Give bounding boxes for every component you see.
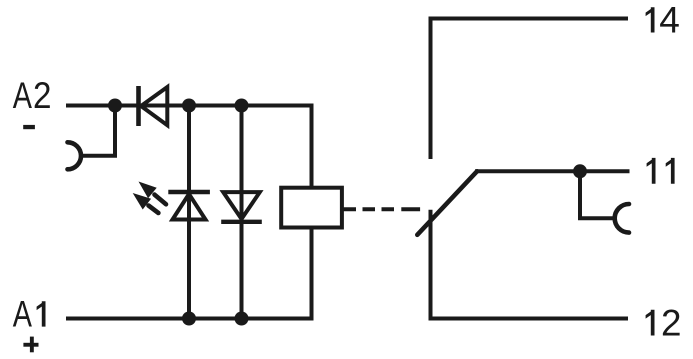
node junction dot on bottom rail at x=241.5 (235, 312, 249, 326)
node junction dot on 11 rail (573, 164, 587, 178)
wire freewheeling diode branch (vertical) (240, 106, 244, 319)
wire coil bottom branch and bottom rail to A1 (66, 228, 312, 319)
wire NO fixed contact line and top rail to 14 (431, 19, 629, 160)
polarity label minus (23, 125, 35, 129)
node junction dot on top rail at x=241.5 (235, 99, 249, 113)
dashed actuator link from coil to contact (344, 207, 421, 211)
socket contact at A2 (68, 142, 82, 169)
svg-text:2: 2 (33, 75, 52, 116)
node junction dot on bottom rail at x=189 (182, 312, 196, 326)
diode V1 (series polarity diode) (139, 86, 168, 126)
wire common rail to 11 (475, 169, 630, 173)
polarity label plus (23, 337, 38, 353)
svg-text:4: 4 (659, 0, 680, 41)
LED D1 (triangle up with cathode bar on top) (168, 192, 210, 220)
socket contact at 11 (615, 204, 629, 233)
wire LED branch (vertical) (187, 106, 191, 319)
terminal label A2 (13, 75, 52, 116)
LED emission arrow lower (133, 193, 159, 213)
contact label 14 (646, 0, 680, 41)
wire A2 lead and top rail with corner down to coil (66, 106, 312, 188)
wire branch from node A2 down to socket contact (82, 106, 115, 156)
terminal label A1 (13, 294, 46, 335)
contact label 11 (647, 158, 675, 184)
wire branch from node 11 down to socket contact (580, 171, 614, 218)
contact label 12 (646, 303, 682, 344)
node junction dot on top rail at x=115 (108, 99, 122, 113)
LED emission arrow upper (139, 182, 167, 205)
diode V2 (freewheeling, triangle down with cathode bar below) (221, 192, 262, 222)
svg-text:A: A (13, 294, 32, 335)
node junction dot on top rail at x=189 (182, 99, 196, 113)
svg-text:2: 2 (661, 303, 682, 344)
wire NC fixed contact line and bottom rail to 12 (431, 210, 629, 319)
svg-text:A: A (13, 75, 32, 116)
relay changeover contact arm (417, 171, 477, 235)
relay coil K1 (281, 188, 342, 228)
